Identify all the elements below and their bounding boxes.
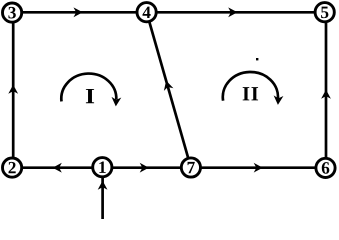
- arrow on edge 1-7 (rightward): [141, 164, 147, 171]
- wire top edge 3-4-5: [12, 11, 325, 14]
- node 7: [181, 158, 200, 177]
- node 2: [3, 158, 22, 177]
- loop I label: [86, 89, 94, 103]
- loop I arrowhead: [113, 99, 120, 105]
- wire left edge 2-3: [12, 12, 15, 167]
- loop II arc: [223, 72, 278, 101]
- loop II arrowhead: [275, 97, 282, 103]
- arrow on edge 1-2 (leftward): [54, 164, 60, 171]
- wire external input into node 1: [101, 178, 104, 219]
- wire right edge 6-5: [325, 12, 328, 167]
- node 3: [3, 3, 22, 22]
- arrow on edge 7-4 (up-left along diagonal): [165, 82, 171, 89]
- wire bottom edge 2-1-7-6: [12, 166, 326, 169]
- arrow on edge 4-5 (rightward): [230, 9, 236, 16]
- loop II label: [243, 87, 250, 100]
- arrow on edge 7-6 (rightward): [255, 164, 261, 171]
- arrow on external input (upward into node 1): [99, 182, 106, 188]
- arrow on edge 3-4 (rightward): [75, 9, 81, 16]
- node 4: [137, 3, 156, 22]
- loop I arc: [61, 74, 116, 102]
- node 5: [315, 3, 334, 22]
- arrow on edge 2-3 (upward): [10, 86, 17, 92]
- stray dot artifact: [256, 58, 258, 60]
- node 6: [316, 158, 335, 177]
- node 1: [93, 158, 112, 177]
- wire diagonal 7-4: [147, 12, 191, 167]
- arrow on edge 6-5 (upward): [323, 91, 330, 97]
